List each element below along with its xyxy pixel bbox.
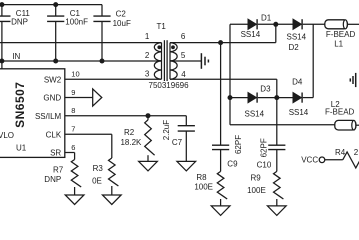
svg-text:T1: T1 (157, 22, 167, 31)
svg-text:SS14: SS14 (289, 108, 309, 117)
svg-text:C7: C7 (172, 138, 183, 147)
svg-text:D1: D1 (261, 13, 272, 22)
svg-text:SS14: SS14 (245, 109, 265, 118)
svg-text:10: 10 (71, 70, 79, 79)
svg-text:R9: R9 (250, 174, 261, 183)
svg-text:9: 9 (71, 88, 75, 97)
svg-text:R2: R2 (124, 128, 135, 137)
svg-text:4: 4 (181, 70, 186, 79)
svg-text:SS14: SS14 (287, 33, 307, 42)
svg-text:C10: C10 (257, 160, 272, 169)
svg-text:SN6507: SN6507 (13, 82, 27, 128)
svg-text:100nF: 100nF (65, 18, 88, 27)
svg-text:L1: L1 (334, 40, 343, 49)
svg-text:U1: U1 (16, 144, 27, 153)
svg-text:R4: R4 (335, 148, 346, 157)
svg-text:2.2uF: 2.2uF (162, 120, 171, 141)
svg-text:100E: 100E (194, 182, 213, 191)
svg-text:3: 3 (145, 70, 150, 79)
svg-text:6: 6 (181, 32, 186, 41)
svg-text:62PF: 62PF (260, 138, 269, 157)
svg-text:D2: D2 (289, 43, 300, 52)
svg-text:5: 5 (181, 51, 186, 60)
svg-text:18.2K: 18.2K (120, 138, 142, 147)
svg-text:100E: 100E (247, 186, 266, 195)
svg-text:CLK: CLK (46, 131, 62, 140)
svg-text:UVLO: UVLO (0, 131, 14, 140)
svg-text:DNP: DNP (11, 18, 28, 27)
svg-text:1: 1 (145, 32, 150, 41)
svg-text:62PF: 62PF (234, 135, 243, 154)
svg-text:GND: GND (43, 94, 61, 103)
svg-text:VCC: VCC (301, 155, 318, 164)
svg-text:F-BEAD: F-BEAD (325, 108, 355, 117)
svg-text:D4: D4 (292, 77, 303, 86)
svg-text:SR: SR (50, 149, 61, 158)
svg-text:SS/ILM: SS/ILM (35, 112, 62, 121)
svg-text:C9: C9 (227, 160, 238, 169)
svg-text:6: 6 (71, 143, 75, 152)
svg-text:750319696: 750319696 (149, 81, 190, 90)
svg-text:2: 2 (145, 51, 150, 60)
svg-text:DNP: DNP (44, 175, 61, 184)
svg-text:C2: C2 (116, 10, 127, 19)
svg-text:IN: IN (12, 52, 20, 61)
svg-text:R7: R7 (53, 166, 64, 175)
svg-text:7: 7 (71, 125, 75, 134)
svg-text:2: 2 (354, 148, 359, 157)
svg-text:F-BEAD: F-BEAD (326, 30, 356, 39)
svg-text:D3: D3 (260, 84, 271, 93)
svg-text:SS14: SS14 (241, 30, 261, 39)
svg-text:0E: 0E (92, 176, 102, 185)
svg-text:R3: R3 (93, 164, 104, 173)
svg-text:SW2: SW2 (44, 75, 62, 84)
svg-text:R8: R8 (196, 173, 207, 182)
svg-text:10uF: 10uF (113, 19, 131, 28)
svg-text:8: 8 (71, 106, 75, 115)
